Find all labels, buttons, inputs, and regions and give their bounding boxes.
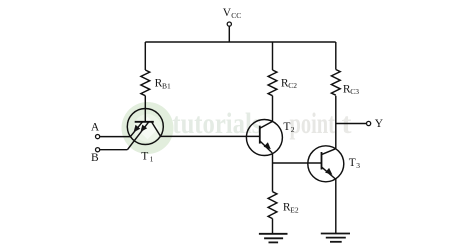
terminal VCC [227,22,231,26]
svg-text:T: T [283,121,290,133]
label VCC [223,7,241,20]
wire bus to RC3 [335,42,337,70]
transistor T3 circle [308,146,344,182]
svg-text:B: B [91,152,99,164]
wire bus to RC2 [272,42,274,70]
transistor T1 emitter 1 [130,122,142,137]
transistor T3 emitter [322,167,336,179]
transistor T2 emitter [260,141,272,153]
terminal Y [367,121,371,125]
wire RE2 to ground [272,219,274,234]
label RB1 [155,78,171,91]
wire VCC stub [228,26,230,42]
transistor T2 circle [246,120,282,156]
svg-text:C2: C2 [288,81,297,90]
arrowheads [134,125,333,175]
ground symbol below RE2 [259,234,288,243]
svg-text:T: T [349,157,356,169]
arrow T3 emitter [325,168,332,175]
wire junction to T3 base [273,162,322,164]
svg-text:point: point [290,107,336,140]
arrow T1 emitter 1 [134,125,141,132]
ground symbol below T3 [321,234,350,242]
watermark logo circle [122,102,174,154]
label RE2 [283,202,299,215]
wire T1 collector to T2 base [161,135,260,137]
resistor RC3 [331,70,340,96]
wire T3 collector to RC3 [335,96,337,149]
transistor T2 base bar [259,126,261,144]
svg-text:2: 2 [291,125,295,134]
svg-text:A: A [91,122,100,134]
transistor T1 circle [127,109,163,145]
watermark text tutorialspoint [172,107,351,140]
wire RB1 to T1 base bar [144,96,146,122]
arrow T2 emitter [264,142,271,149]
svg-text:tutorials: tutorials [172,107,261,140]
label T2 [283,121,294,134]
wire T2 emitter down to junction [272,153,274,163]
transistor T2 collector [260,121,273,128]
svg-text:3: 3 [356,161,360,170]
label T3 [349,157,360,170]
arrow T1 emitter 2 [141,125,148,132]
svg-text:CC: CC [231,11,241,20]
wire T3 emitter to ground [335,179,337,233]
transistor T1 emitter 2 [127,122,148,150]
wire output Y [336,123,367,125]
wire input A [100,136,131,138]
wire T2 collector to RC2 [272,96,274,122]
resistor RE2 [268,192,277,219]
svg-text:Y: Y [375,118,384,130]
svg-text:E2: E2 [290,205,299,214]
resistor RB1 [141,70,150,96]
terminal B [96,148,100,152]
svg-text:C3: C3 [350,87,359,96]
svg-text:T: T [141,151,148,163]
wire bus to RB1 [144,42,146,70]
transistor T1 base bar [135,121,154,123]
resistor RC2 [268,70,277,96]
label RC2 [281,77,297,90]
wire junction to RE2 [272,163,274,192]
transistor T3 base bar [321,152,323,170]
transistor T3 collector [322,149,336,155]
wire VCC bus [145,41,335,43]
transistor T1 collector [152,122,161,137]
svg-text:B1: B1 [162,81,171,90]
svg-text:1: 1 [150,154,154,163]
label T1 [141,151,153,164]
label RC3 [343,84,359,97]
terminal A [96,135,100,139]
wire input B [100,149,128,151]
